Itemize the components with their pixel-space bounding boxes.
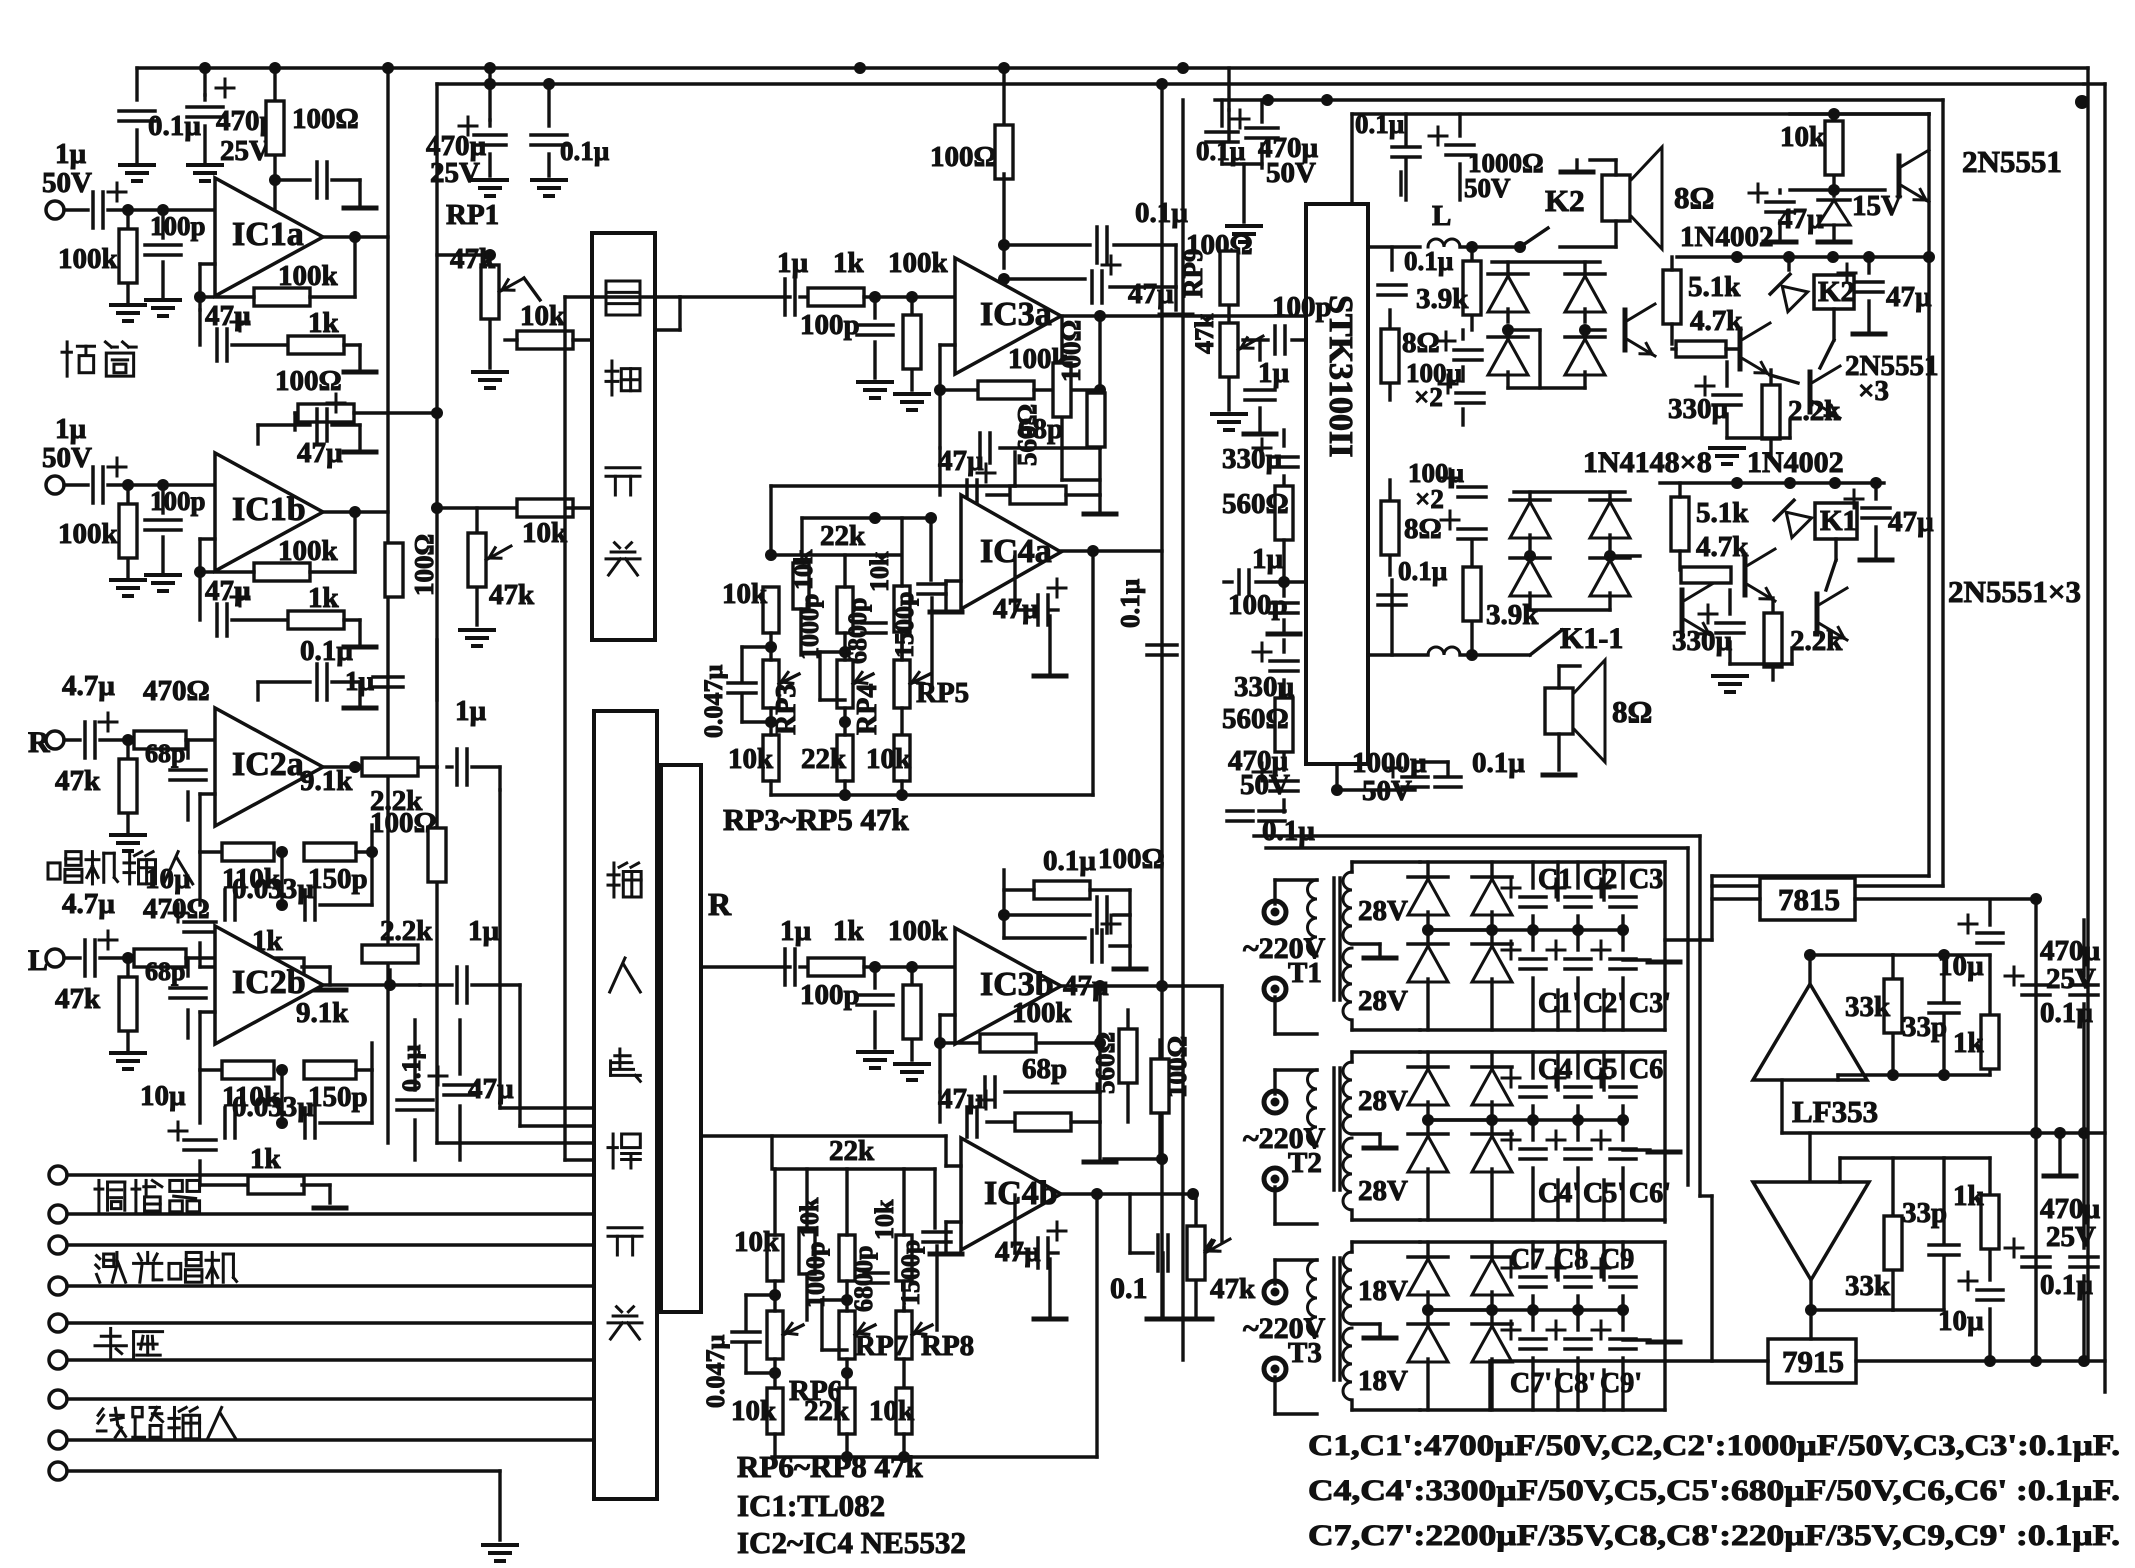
svg-text:IC4b: IC4b	[984, 1175, 1058, 1212]
svg-text:C5: C5	[1583, 1054, 1617, 1085]
svg-text:150p: 150p	[308, 863, 368, 895]
svg-text:50V: 50V	[42, 442, 92, 474]
svg-text:IC2a: IC2a	[232, 746, 304, 783]
svg-text:4.7µ: 4.7µ	[62, 888, 115, 920]
svg-text:100p: 100p	[800, 309, 860, 341]
svg-text:1500p: 1500p	[890, 592, 919, 658]
svg-text:RP1: RP1	[446, 199, 499, 231]
svg-text:0.1µ: 0.1µ	[1398, 556, 1448, 586]
svg-text:1µ: 1µ	[777, 247, 809, 279]
svg-text:L: L	[28, 944, 48, 977]
svg-text:18V: 18V	[1358, 1365, 1408, 1397]
svg-text:50V: 50V	[1266, 157, 1316, 189]
svg-text:470Ω: 470Ω	[143, 893, 210, 925]
svg-text:10k: 10k	[1780, 121, 1826, 153]
svg-text:1µ: 1µ	[55, 413, 87, 445]
svg-text:C7: C7	[1510, 1244, 1544, 1275]
svg-text:5.1k: 5.1k	[1696, 497, 1749, 529]
svg-text:0.1µ: 0.1µ	[1043, 845, 1096, 877]
svg-text:5.1k: 5.1k	[1688, 271, 1741, 303]
svg-text:10k: 10k	[789, 549, 818, 590]
svg-text:3.9k: 3.9k	[1416, 283, 1469, 315]
svg-text:0.1: 0.1	[1110, 1272, 1148, 1305]
svg-text:0.033µ: 0.033µ	[232, 1091, 314, 1123]
svg-text:0.1µ: 0.1µ	[148, 110, 201, 142]
svg-text:1k: 1k	[833, 247, 865, 279]
svg-text:10k: 10k	[866, 743, 912, 775]
svg-text:1N4148×8: 1N4148×8	[1583, 446, 1712, 479]
svg-text:IC2~IC4 NE5532: IC2~IC4 NE5532	[737, 1525, 966, 1560]
svg-text:×2: ×2	[1415, 484, 1444, 514]
svg-text:K1: K1	[1820, 505, 1857, 537]
svg-text:100Ω: 100Ω	[930, 141, 997, 173]
svg-text:10k: 10k	[869, 1395, 915, 1427]
svg-text:1N4002: 1N4002	[1680, 221, 1773, 253]
svg-text:10k: 10k	[522, 517, 568, 549]
svg-text:0.1µ: 0.1µ	[1472, 747, 1525, 779]
svg-text:100Ω: 100Ω	[409, 534, 439, 596]
svg-text:100Ω: 100Ω	[1162, 1036, 1192, 1098]
svg-text:68p: 68p	[145, 957, 185, 986]
svg-text:560Ω: 560Ω	[1090, 1032, 1120, 1094]
svg-text:C7': C7'	[1510, 1368, 1552, 1399]
svg-text:47k: 47k	[450, 243, 496, 275]
svg-text:6800p: 6800p	[843, 598, 872, 664]
svg-text:7915: 7915	[1782, 1344, 1844, 1379]
svg-text:100k: 100k	[1012, 997, 1073, 1029]
svg-text:100k: 100k	[58, 518, 119, 550]
svg-text:1µ: 1µ	[780, 915, 812, 947]
svg-text:RP9: RP9	[1178, 249, 1208, 299]
svg-text:47µ: 47µ	[205, 575, 251, 607]
svg-text:10k: 10k	[722, 578, 768, 610]
svg-text:RP8: RP8	[921, 1330, 974, 1362]
svg-text:50V: 50V	[1464, 173, 1511, 203]
svg-text:2.2k: 2.2k	[380, 915, 433, 947]
svg-text:100p: 100p	[1228, 589, 1288, 621]
svg-text:1N4002: 1N4002	[1747, 446, 1844, 479]
svg-text:10k: 10k	[520, 300, 566, 332]
svg-text:C1,C1':4700µF/50V,C2,C2':1000µ: C1,C1':4700µF/50V,C2,C2':1000µF/50V,C3,C…	[1308, 1429, 2120, 1462]
svg-text:4.7k: 4.7k	[1696, 531, 1749, 563]
svg-text:47k: 47k	[1210, 1273, 1256, 1305]
svg-text:560Ω: 560Ω	[1222, 488, 1289, 520]
svg-text:18V: 18V	[1358, 1275, 1408, 1307]
svg-text:RP7: RP7	[855, 1330, 908, 1362]
svg-text:10k: 10k	[731, 1395, 777, 1427]
svg-text:C2: C2	[1583, 864, 1617, 895]
svg-text:1k: 1k	[1953, 1180, 1985, 1212]
svg-text:22k: 22k	[801, 743, 847, 775]
svg-text:4.7µ: 4.7µ	[62, 670, 115, 702]
svg-text:50V: 50V	[1240, 769, 1290, 801]
svg-text:IC2b: IC2b	[232, 964, 306, 1001]
svg-text:68p: 68p	[145, 739, 185, 768]
svg-text:C3: C3	[1629, 864, 1663, 895]
svg-text:47k: 47k	[55, 765, 101, 797]
svg-text:8Ω: 8Ω	[1404, 513, 1442, 545]
svg-text:T3: T3	[1288, 1337, 1322, 1369]
svg-text:47k: 47k	[55, 983, 101, 1015]
svg-text:100k: 100k	[888, 915, 949, 947]
svg-text:25V: 25V	[2046, 963, 2096, 995]
svg-text:L: L	[1432, 200, 1451, 232]
svg-text:28V: 28V	[1358, 1175, 1408, 1207]
svg-text:9.1k: 9.1k	[296, 997, 349, 1029]
svg-text:4.7k: 4.7k	[1690, 305, 1743, 337]
svg-text:1k: 1k	[833, 915, 865, 947]
svg-text:22k: 22k	[804, 1395, 850, 1427]
svg-text:25V: 25V	[430, 157, 480, 189]
svg-text:0.1µ: 0.1µ	[1135, 197, 1188, 229]
svg-text:0.1µ: 0.1µ	[560, 136, 610, 166]
svg-text:1µ: 1µ	[455, 695, 487, 727]
svg-text:0.047µ: 0.047µ	[701, 1335, 730, 1409]
svg-text:47µ: 47µ	[938, 445, 984, 477]
svg-text:47k: 47k	[1190, 313, 1219, 354]
svg-text:T2: T2	[1288, 1147, 1322, 1179]
svg-text:10µ: 10µ	[140, 1080, 186, 1112]
svg-text:50V: 50V	[42, 167, 92, 199]
svg-text:0.1µ: 0.1µ	[300, 635, 353, 667]
svg-text:1k: 1k	[1953, 1027, 1985, 1059]
svg-text:0.1µ: 0.1µ	[1355, 109, 1405, 139]
svg-text:10µ: 10µ	[1938, 950, 1984, 982]
svg-text:RP4: RP4	[852, 684, 883, 735]
svg-text:10k: 10k	[728, 743, 774, 775]
svg-text:68p: 68p	[1022, 1053, 1067, 1085]
svg-text:C8': C8'	[1554, 1368, 1596, 1399]
svg-text:47k: 47k	[489, 579, 535, 611]
svg-text:33p: 33p	[1902, 1197, 1947, 1229]
svg-text:C4,C4':3300µF/50V,C5,C5':680µF: C4,C4':3300µF/50V,C5,C5':680µF/50V,C6,C6…	[1308, 1474, 2120, 1507]
svg-text:100k: 100k	[888, 247, 949, 279]
svg-text:560Ω: 560Ω	[1222, 703, 1289, 735]
svg-text:100Ω: 100Ω	[1056, 320, 1086, 382]
svg-text:0.1µ: 0.1µ	[1196, 136, 1246, 166]
svg-text:33k: 33k	[1845, 991, 1891, 1023]
svg-text:47µ: 47µ	[938, 1083, 984, 1115]
svg-text:IC1a: IC1a	[232, 216, 304, 253]
svg-text:C1: C1	[1538, 864, 1572, 895]
svg-text:1µ: 1µ	[1258, 357, 1290, 389]
svg-text:100Ω: 100Ω	[292, 103, 359, 135]
svg-text:IC1b: IC1b	[232, 491, 306, 528]
svg-text:10k: 10k	[870, 1199, 899, 1240]
svg-text:100k: 100k	[58, 243, 119, 275]
svg-text:1500p: 1500p	[896, 1240, 925, 1306]
svg-text:IC3a: IC3a	[980, 296, 1052, 333]
svg-text:2N5551×3: 2N5551×3	[1948, 574, 2081, 609]
svg-text:47µ: 47µ	[1778, 203, 1824, 235]
svg-text:IC1:TL082: IC1:TL082	[737, 1488, 885, 1523]
svg-text:100Ω: 100Ω	[275, 365, 342, 397]
svg-text:LF353: LF353	[1792, 1094, 1878, 1129]
svg-text:RP5: RP5	[916, 677, 969, 709]
svg-text:K2: K2	[1545, 183, 1585, 218]
svg-text:0.1µ: 0.1µ	[1115, 578, 1145, 628]
svg-text:RP6~RP8 47k: RP6~RP8 47k	[737, 1449, 924, 1484]
svg-text:1µ: 1µ	[1252, 543, 1284, 575]
svg-text:RP3: RP3	[771, 684, 802, 735]
svg-text:7815: 7815	[1778, 882, 1840, 917]
svg-text:0.033µ: 0.033µ	[232, 873, 314, 905]
svg-text:C7,C7':2200µF/35V,C8,C8':220µF: C7,C7':2200µF/35V,C8,C8':220µF/35V,C9,C9…	[1308, 1519, 2120, 1552]
svg-text:×3: ×3	[1858, 375, 1889, 407]
svg-text:1000p: 1000p	[801, 1242, 830, 1308]
svg-text:150p: 150p	[308, 1081, 368, 1113]
svg-text:10k: 10k	[734, 1226, 780, 1258]
svg-text:47µ: 47µ	[1128, 278, 1174, 310]
svg-text:1µ: 1µ	[55, 138, 87, 170]
svg-text:1µ: 1µ	[468, 915, 500, 947]
svg-text:6800p: 6800p	[849, 1246, 878, 1312]
svg-text:8Ω: 8Ω	[1612, 694, 1652, 729]
svg-text:100p: 100p	[800, 979, 860, 1011]
svg-text:15V: 15V	[1852, 190, 1902, 222]
svg-text:47µ: 47µ	[468, 1073, 514, 1105]
svg-text:47µ: 47µ	[1886, 281, 1932, 313]
svg-text:100k: 100k	[278, 260, 339, 292]
svg-text:RP3~RP5 47k: RP3~RP5 47k	[723, 802, 910, 837]
svg-text:10k: 10k	[795, 1197, 824, 1238]
svg-text:330µ: 330µ	[1222, 443, 1283, 475]
svg-text:100p: 100p	[150, 211, 206, 241]
svg-text:1k: 1k	[250, 1143, 282, 1175]
svg-text:×2: ×2	[1414, 382, 1443, 412]
svg-text:33k: 33k	[1845, 1270, 1891, 1302]
svg-text:50V: 50V	[1362, 775, 1412, 807]
svg-text:2.2k: 2.2k	[1790, 625, 1843, 657]
svg-text:0.047µ: 0.047µ	[699, 665, 728, 739]
svg-text:K1-1: K1-1	[1560, 622, 1623, 655]
svg-text:8Ω: 8Ω	[1674, 180, 1714, 215]
svg-text:470Ω: 470Ω	[143, 675, 210, 707]
svg-text:2.2k: 2.2k	[1788, 395, 1841, 427]
svg-text:22k: 22k	[820, 520, 866, 552]
svg-text:R: R	[28, 726, 50, 759]
svg-text:47µ: 47µ	[297, 437, 343, 469]
svg-text:330µ: 330µ	[1668, 393, 1729, 425]
svg-text:0.1µ: 0.1µ	[397, 1045, 426, 1093]
svg-text:R: R	[708, 886, 732, 922]
svg-text:25V: 25V	[220, 135, 270, 167]
svg-text:10k: 10k	[865, 551, 894, 592]
svg-text:1000p: 1000p	[795, 594, 824, 660]
svg-text:C9': C9'	[1600, 1368, 1642, 1399]
svg-text:T1: T1	[1288, 957, 1322, 989]
svg-text:9.1k: 9.1k	[300, 765, 353, 797]
svg-text:100p: 100p	[1272, 291, 1332, 323]
svg-text:47µ: 47µ	[205, 300, 251, 332]
svg-text:33p: 33p	[1902, 1011, 1947, 1043]
svg-text:0.1µ: 0.1µ	[1262, 815, 1315, 847]
svg-text:100k: 100k	[278, 535, 339, 567]
svg-text:25V: 25V	[2046, 1221, 2096, 1253]
svg-text:47µ: 47µ	[1888, 506, 1934, 538]
svg-text:1k: 1k	[308, 582, 340, 614]
svg-text:28V: 28V	[1358, 1085, 1408, 1117]
svg-text:C6: C6	[1629, 1054, 1663, 1085]
svg-text:K2: K2	[1818, 276, 1855, 308]
svg-text:28V: 28V	[1358, 985, 1408, 1017]
svg-text:0.1µ: 0.1µ	[2040, 1269, 2093, 1301]
svg-text:28V: 28V	[1358, 895, 1408, 927]
svg-text:22k: 22k	[829, 1135, 875, 1167]
svg-text:100Ω: 100Ω	[1098, 843, 1165, 875]
svg-text:100p: 100p	[150, 486, 206, 516]
svg-text:2N5551: 2N5551	[1962, 144, 2062, 179]
svg-text:10µ: 10µ	[1938, 1305, 1984, 1337]
svg-text:8Ω: 8Ω	[1402, 327, 1440, 359]
svg-text:1k: 1k	[308, 307, 340, 339]
svg-text:C4: C4	[1538, 1054, 1572, 1085]
svg-text:0.1µ: 0.1µ	[1404, 246, 1454, 276]
svg-text:330µ: 330µ	[1672, 625, 1733, 657]
